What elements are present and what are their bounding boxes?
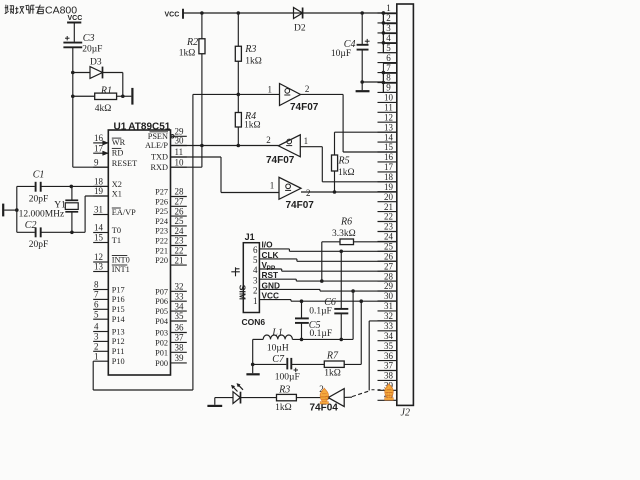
svg-text:35: 35 <box>384 341 394 351</box>
svg-text:R3: R3 <box>244 44 256 55</box>
svg-text:31: 31 <box>94 205 103 215</box>
svg-text:35: 35 <box>175 311 185 321</box>
svg-text:X1: X1 <box>112 190 122 199</box>
svg-text:C2: C2 <box>25 220 37 231</box>
svg-text:27: 27 <box>384 261 394 271</box>
svg-text:37: 37 <box>175 333 185 343</box>
svg-text:VCC: VCC <box>68 15 83 22</box>
svg-text:CON6: CON6 <box>242 317 266 327</box>
svg-text:INT0: INT0 <box>112 256 130 265</box>
svg-text:4: 4 <box>253 265 258 275</box>
svg-text:38: 38 <box>384 371 394 381</box>
svg-text:8: 8 <box>94 280 99 290</box>
svg-text:P24: P24 <box>155 217 169 226</box>
svg-text:30: 30 <box>384 291 394 301</box>
svg-text:6: 6 <box>253 245 258 255</box>
svg-text:WR: WR <box>112 138 126 147</box>
svg-text:R5: R5 <box>338 156 350 167</box>
svg-text:P15: P15 <box>112 305 125 314</box>
svg-text:1: 1 <box>270 180 275 190</box>
svg-text:3.3kΩ: 3.3kΩ <box>332 229 356 239</box>
svg-text:34: 34 <box>384 331 394 341</box>
svg-text:0.1µF: 0.1µF <box>310 329 333 339</box>
svg-text:18: 18 <box>94 177 104 187</box>
svg-text:10: 10 <box>175 157 185 167</box>
svg-text:P05: P05 <box>155 307 168 316</box>
svg-text:1kΩ: 1kΩ <box>324 369 341 379</box>
svg-text:19: 19 <box>94 186 104 196</box>
svg-text:R7: R7 <box>326 351 339 362</box>
svg-text:6: 6 <box>94 300 99 310</box>
svg-text:20: 20 <box>384 192 394 202</box>
svg-text:I/O: I/O <box>262 240 274 250</box>
svg-text:37: 37 <box>384 361 394 371</box>
svg-text:4kΩ: 4kΩ <box>95 104 112 114</box>
svg-text:15: 15 <box>94 233 104 243</box>
svg-text:P01: P01 <box>155 348 168 357</box>
svg-text:74F07: 74F07 <box>290 102 319 113</box>
svg-text:23: 23 <box>175 236 185 246</box>
svg-text:22: 22 <box>175 246 184 256</box>
svg-text:P16: P16 <box>112 295 125 304</box>
svg-text:2: 2 <box>386 13 391 23</box>
svg-text:D3: D3 <box>90 58 102 68</box>
svg-text:10: 10 <box>384 93 394 103</box>
svg-text:1: 1 <box>94 351 99 361</box>
svg-text:5: 5 <box>253 255 258 265</box>
svg-text:27: 27 <box>175 197 185 207</box>
svg-text:1kΩ: 1kΩ <box>338 168 355 178</box>
svg-text:24: 24 <box>384 232 394 242</box>
svg-text:17: 17 <box>384 162 394 172</box>
svg-text:24: 24 <box>175 226 185 236</box>
svg-text:P25: P25 <box>155 207 168 216</box>
svg-text:22: 22 <box>384 212 393 222</box>
svg-text:1kΩ: 1kΩ <box>245 56 262 66</box>
svg-text:36: 36 <box>175 323 185 333</box>
svg-text:P07: P07 <box>155 287 168 296</box>
svg-text:PSEN: PSEN <box>148 132 168 141</box>
svg-text:2: 2 <box>306 188 311 198</box>
svg-text:17: 17 <box>94 143 104 153</box>
svg-text:7: 7 <box>94 290 99 300</box>
svg-text:21: 21 <box>175 255 184 265</box>
svg-text:25: 25 <box>175 216 185 226</box>
svg-text:16: 16 <box>384 152 394 162</box>
svg-text:1kΩ: 1kΩ <box>179 49 196 59</box>
svg-text:12: 12 <box>384 112 393 122</box>
svg-text:VCC: VCC <box>165 11 180 18</box>
svg-text:TXD: TXD <box>151 153 168 162</box>
svg-text:14: 14 <box>94 223 104 233</box>
svg-text:1kΩ: 1kΩ <box>275 403 292 413</box>
svg-text:2: 2 <box>94 342 99 352</box>
svg-text:EA/VP: EA/VP <box>112 208 136 217</box>
svg-text:U1: U1 <box>114 121 127 132</box>
svg-text:74F07: 74F07 <box>266 155 295 166</box>
svg-text:4: 4 <box>386 33 391 43</box>
svg-text:33: 33 <box>384 321 394 331</box>
svg-text:ALE/P: ALE/P <box>145 141 168 150</box>
svg-text:P03: P03 <box>155 329 168 338</box>
svg-text:2: 2 <box>305 84 310 94</box>
svg-text:2: 2 <box>253 286 258 296</box>
svg-text:38: 38 <box>175 343 185 353</box>
svg-text:12: 12 <box>94 252 103 262</box>
svg-text:36: 36 <box>384 351 394 361</box>
svg-text:T1: T1 <box>112 236 121 245</box>
svg-text:SIM: SIM <box>237 285 247 300</box>
svg-text:P02: P02 <box>155 338 168 347</box>
svg-text:32: 32 <box>384 311 393 321</box>
svg-text:15: 15 <box>384 142 394 152</box>
svg-text:8: 8 <box>386 73 391 83</box>
svg-text:X2: X2 <box>112 180 122 189</box>
svg-text:2: 2 <box>266 135 271 145</box>
svg-text:D2: D2 <box>294 24 306 34</box>
svg-text:14: 14 <box>384 132 394 142</box>
svg-text:26: 26 <box>384 251 394 261</box>
svg-text:1: 1 <box>386 3 391 13</box>
svg-text:10µF: 10µF <box>331 49 351 59</box>
svg-text:13: 13 <box>94 262 104 272</box>
svg-text:P11: P11 <box>112 347 125 356</box>
svg-text:33: 33 <box>175 291 185 301</box>
svg-text:6: 6 <box>386 53 391 63</box>
svg-text:R6: R6 <box>340 216 352 227</box>
svg-text:26: 26 <box>175 206 185 216</box>
svg-text:C3: C3 <box>83 33 95 44</box>
svg-text:C1: C1 <box>33 170 45 181</box>
svg-text:19: 19 <box>384 182 394 192</box>
svg-text:R2: R2 <box>186 37 198 48</box>
svg-text:5: 5 <box>386 43 391 53</box>
svg-text:P22: P22 <box>155 237 168 246</box>
svg-text:P06: P06 <box>155 297 168 306</box>
svg-text:31: 31 <box>384 301 393 311</box>
svg-text:1: 1 <box>304 136 309 146</box>
svg-text:29: 29 <box>384 281 394 291</box>
svg-text:J1: J1 <box>245 232 255 242</box>
svg-text:10µH: 10µH <box>267 343 289 353</box>
svg-text:P00: P00 <box>155 359 168 368</box>
svg-text:T0: T0 <box>112 226 121 235</box>
svg-text:28: 28 <box>384 271 394 281</box>
svg-text:CLK: CLK <box>262 250 279 260</box>
svg-text:1: 1 <box>268 84 273 94</box>
svg-text:9: 9 <box>386 83 391 93</box>
svg-text:P14: P14 <box>112 315 126 324</box>
svg-text:3: 3 <box>253 275 258 285</box>
svg-text:20pF: 20pF <box>29 195 49 205</box>
svg-text:23: 23 <box>384 222 394 232</box>
svg-text:RESET: RESET <box>112 159 137 168</box>
svg-text:34: 34 <box>175 301 185 311</box>
svg-text:RD: RD <box>112 148 124 157</box>
svg-text:74F07: 74F07 <box>286 200 315 211</box>
svg-text:C7: C7 <box>272 354 285 365</box>
svg-text:32: 32 <box>175 282 184 292</box>
svg-text:20pF: 20pF <box>29 240 49 250</box>
svg-text:5: 5 <box>94 309 99 319</box>
svg-text:P17: P17 <box>112 285 125 294</box>
svg-text:P12: P12 <box>112 337 125 346</box>
svg-text:INT1: INT1 <box>112 265 130 274</box>
svg-text:7: 7 <box>386 63 391 73</box>
svg-text:P21: P21 <box>155 246 168 255</box>
svg-text:R3: R3 <box>278 385 290 396</box>
svg-text:39: 39 <box>175 353 185 363</box>
svg-text:18: 18 <box>384 172 394 182</box>
svg-text:3: 3 <box>94 332 99 342</box>
svg-text:3: 3 <box>386 23 391 33</box>
svg-text:21: 21 <box>384 202 393 212</box>
svg-text:P26: P26 <box>155 197 168 206</box>
svg-text:20µF: 20µF <box>82 44 102 54</box>
svg-text:J2: J2 <box>401 408 410 419</box>
svg-text:9: 9 <box>94 157 99 167</box>
svg-text:25: 25 <box>384 242 394 252</box>
svg-text:P10: P10 <box>112 357 125 366</box>
svg-text:P04: P04 <box>155 317 169 326</box>
svg-text:P23: P23 <box>155 227 168 236</box>
svg-text:0.1µF: 0.1µF <box>309 306 332 316</box>
svg-text:11: 11 <box>175 147 184 157</box>
svg-text:4: 4 <box>94 322 99 332</box>
svg-text:28: 28 <box>175 187 185 197</box>
svg-text:1: 1 <box>253 296 258 306</box>
svg-text:P20: P20 <box>155 256 168 265</box>
svg-text:P27: P27 <box>155 188 168 197</box>
svg-text:AT89C51: AT89C51 <box>128 121 170 132</box>
svg-text:30: 30 <box>175 136 185 146</box>
svg-text:R1: R1 <box>100 86 112 97</box>
svg-text:P13: P13 <box>112 327 125 336</box>
svg-text:13: 13 <box>384 122 394 132</box>
svg-text:11: 11 <box>384 103 393 113</box>
svg-text:RXD: RXD <box>150 163 168 172</box>
svg-text:12.000MHz: 12.000MHz <box>19 210 65 220</box>
svg-text:100µF: 100µF <box>275 373 300 383</box>
svg-text:16: 16 <box>94 133 104 143</box>
svg-text:1kΩ: 1kΩ <box>244 121 261 131</box>
